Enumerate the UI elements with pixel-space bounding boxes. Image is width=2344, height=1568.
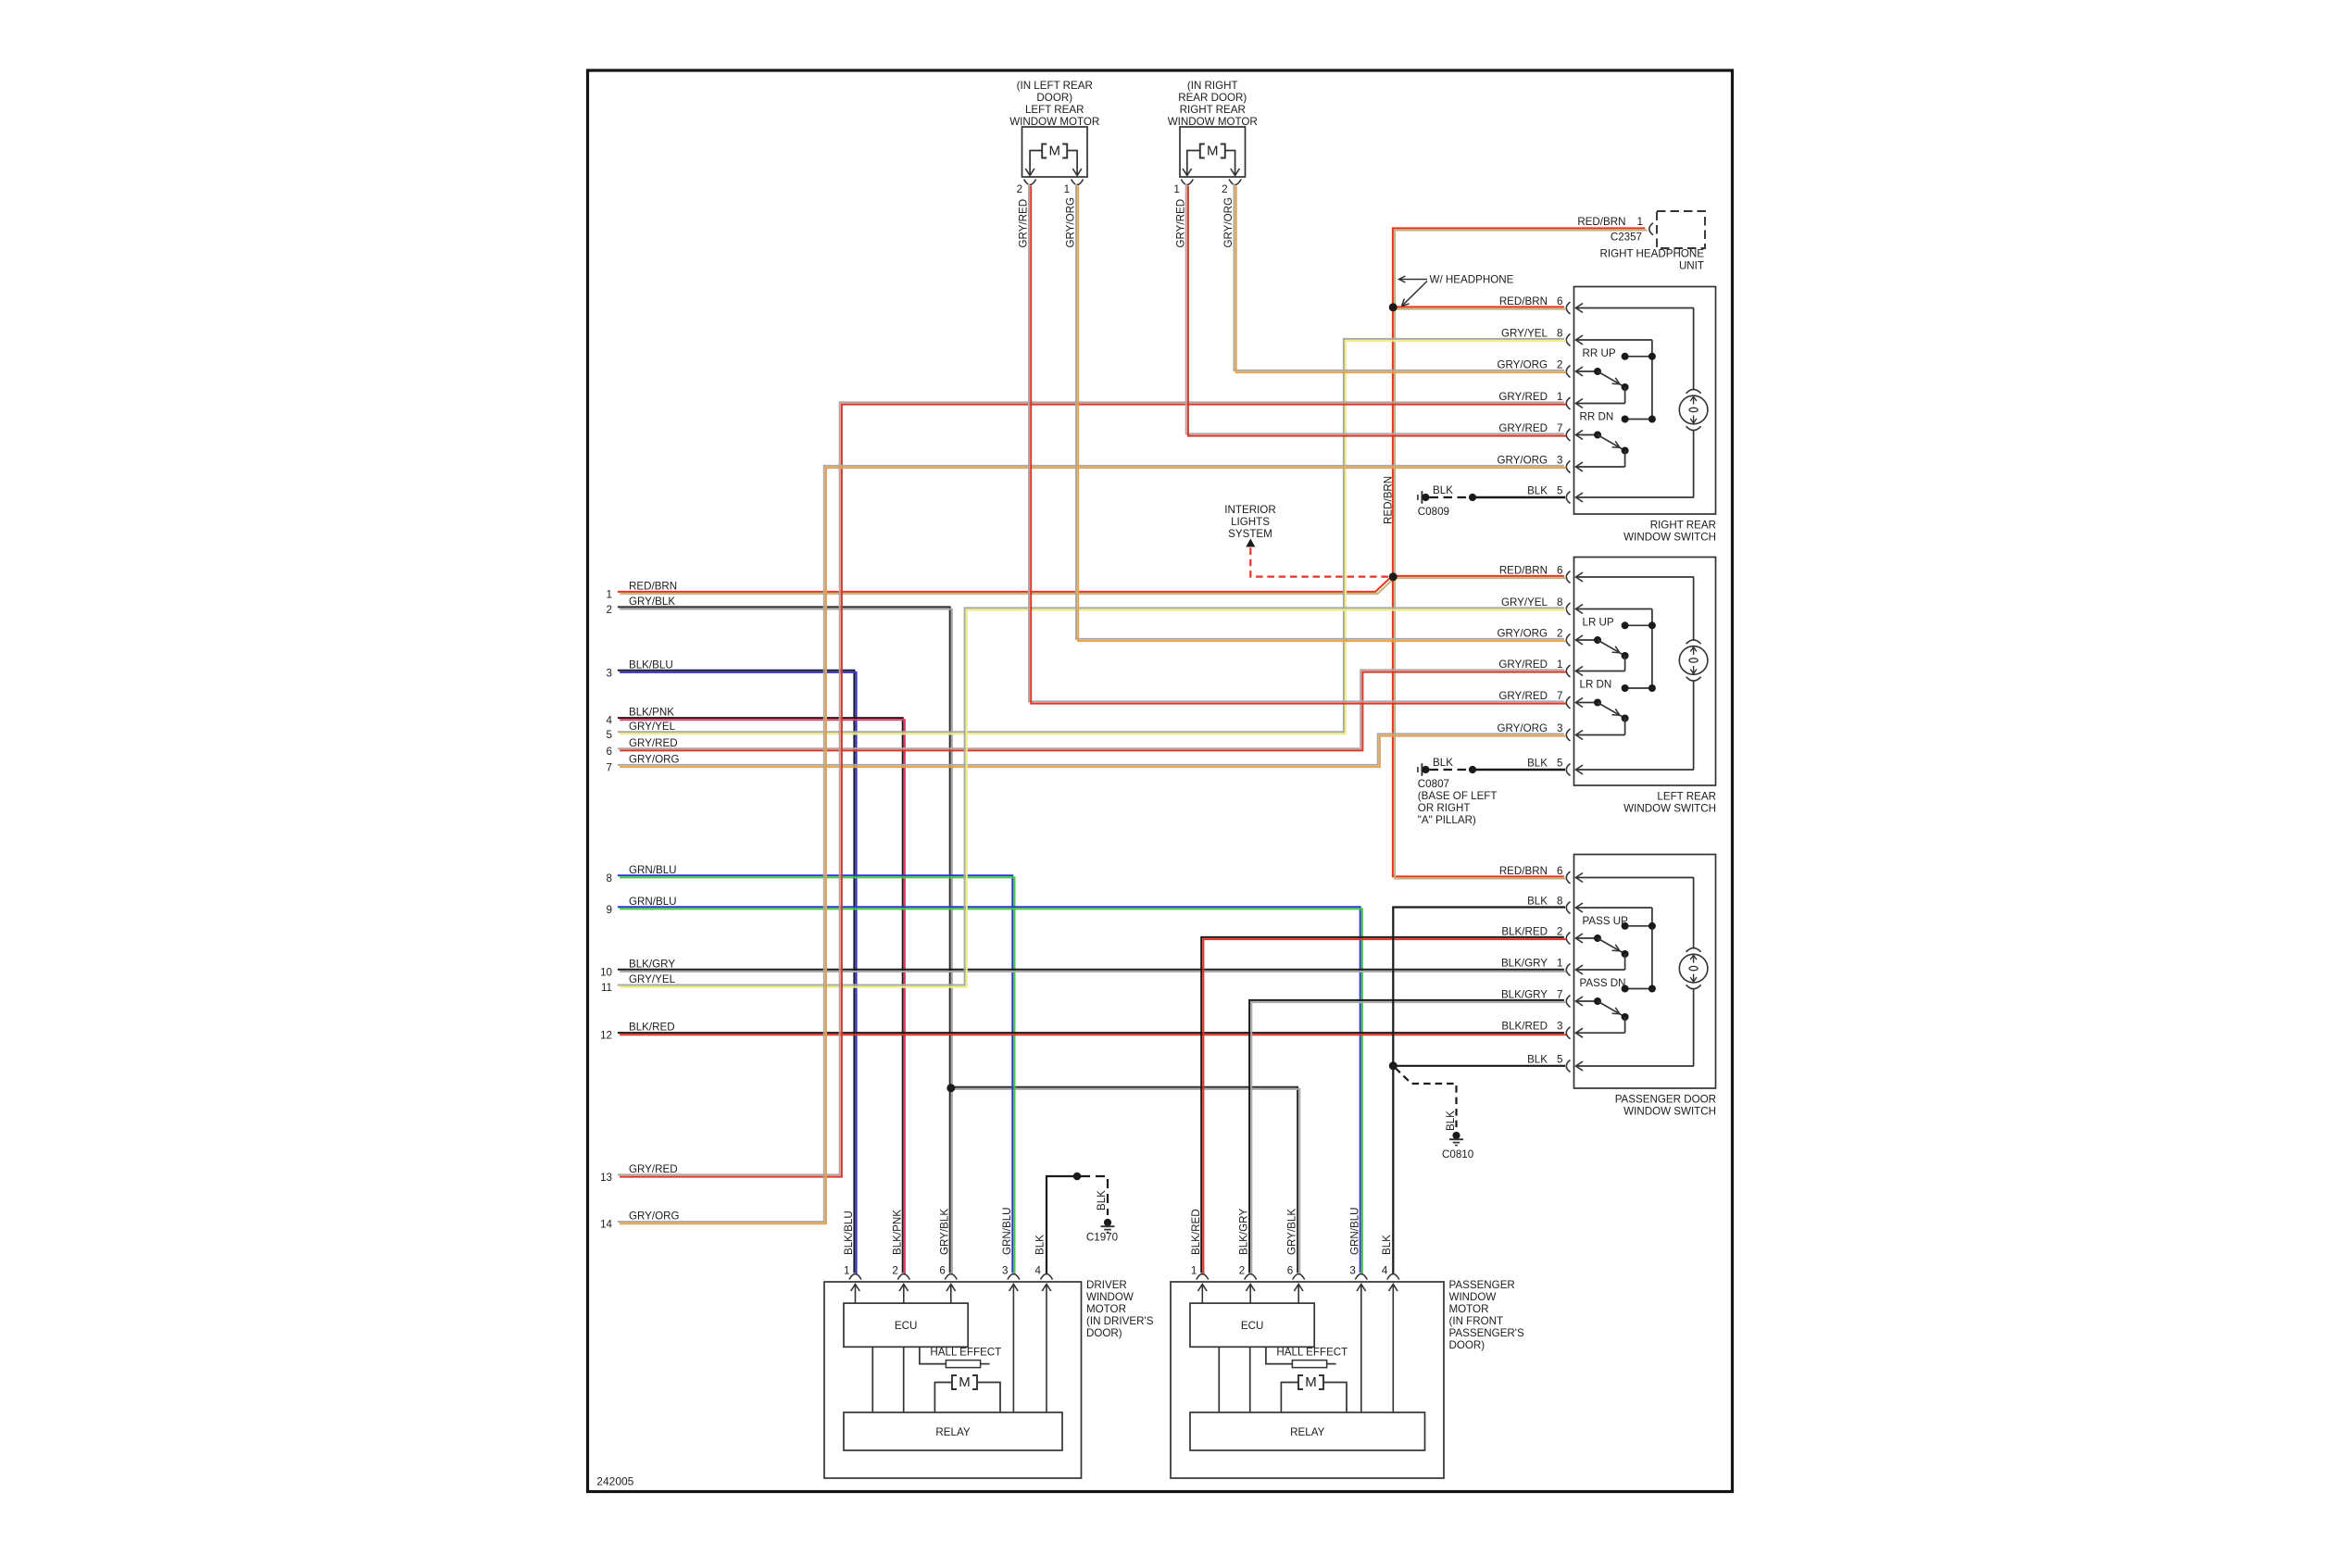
svg-text:C1970: C1970 [1086, 1232, 1118, 1244]
svg-text:ECU: ECU [895, 1320, 917, 1332]
svg-text:12: 12 [600, 1030, 612, 1042]
svg-text:W/ HEADPHONE: W/ HEADPHONE [1430, 274, 1514, 286]
svg-text:PASSENGER: PASSENGER [1449, 1279, 1515, 1291]
svg-text:DOOR): DOOR) [1036, 92, 1072, 104]
svg-text:GRN/BLU: GRN/BLU [629, 896, 677, 908]
svg-text:3: 3 [1349, 1265, 1355, 1277]
svg-text:2: 2 [607, 604, 612, 616]
svg-text:242005: 242005 [596, 1475, 633, 1488]
svg-text:8: 8 [1557, 596, 1562, 608]
svg-text:1: 1 [1191, 1265, 1197, 1277]
svg-text:DOOR): DOOR) [1086, 1327, 1122, 1339]
svg-text:6: 6 [1557, 295, 1562, 307]
svg-text:BLK/PNK: BLK/PNK [629, 707, 674, 719]
svg-text:HALL EFFECT: HALL EFFECT [930, 1347, 1001, 1359]
svg-text:GRY/YEL: GRY/YEL [1501, 596, 1548, 608]
svg-text:1: 1 [607, 589, 612, 601]
svg-text:1: 1 [1557, 958, 1562, 970]
svg-text:GRY/RED: GRY/RED [629, 737, 678, 749]
svg-text:3: 3 [1557, 1021, 1562, 1033]
svg-text:M: M [1049, 144, 1061, 159]
svg-text:REAR DOOR): REAR DOOR) [1178, 92, 1247, 104]
svg-text:5: 5 [1557, 1054, 1562, 1066]
svg-text:GRY/BLK: GRY/BLK [938, 1209, 950, 1255]
svg-text:4: 4 [1382, 1265, 1388, 1277]
svg-text:(IN DRIVER'S: (IN DRIVER'S [1086, 1315, 1154, 1327]
svg-text:BLK: BLK [1445, 1110, 1457, 1131]
svg-text:BLK/GRY: BLK/GRY [1501, 989, 1548, 1001]
svg-text:BLK/RED: BLK/RED [1501, 1021, 1548, 1033]
svg-text:11: 11 [601, 982, 612, 994]
svg-text:LEFT REAR: LEFT REAR [1025, 104, 1084, 116]
svg-text:INTERIOR: INTERIOR [1224, 504, 1275, 516]
svg-text:BLK: BLK [1527, 758, 1548, 770]
svg-text:GRY/ORG: GRY/ORG [1497, 628, 1548, 640]
svg-text:HALL EFFECT: HALL EFFECT [1276, 1347, 1347, 1359]
svg-text:10: 10 [600, 966, 612, 978]
svg-text:GRY/ORG: GRY/ORG [1497, 359, 1548, 371]
svg-text:RR UP: RR UP [1583, 347, 1616, 359]
svg-text:1: 1 [844, 1265, 849, 1277]
svg-text:RIGHT REAR: RIGHT REAR [1650, 520, 1716, 532]
svg-text:6: 6 [939, 1265, 945, 1277]
svg-text:BLK/BLU: BLK/BLU [629, 659, 673, 671]
svg-text:ECU: ECU [1241, 1320, 1263, 1332]
svg-text:C0807: C0807 [1418, 778, 1449, 790]
svg-text:3: 3 [1557, 722, 1562, 734]
svg-text:M: M [959, 1374, 971, 1390]
svg-text:PASSENGER'S: PASSENGER'S [1449, 1327, 1525, 1339]
svg-text:7: 7 [607, 762, 612, 774]
svg-text:UNIT: UNIT [1679, 260, 1704, 272]
svg-text:6: 6 [607, 746, 612, 758]
svg-text:WINDOW SWITCH: WINDOW SWITCH [1623, 803, 1716, 815]
svg-text:PASS UP: PASS UP [1583, 915, 1629, 927]
svg-text:RELAY: RELAY [935, 1426, 970, 1438]
svg-text:6: 6 [1287, 1265, 1293, 1277]
svg-text:6: 6 [1557, 865, 1562, 877]
svg-text:2: 2 [1557, 926, 1562, 938]
svg-text:BLK/RED: BLK/RED [1501, 926, 1548, 938]
svg-text:RIGHT REAR: RIGHT REAR [1180, 104, 1246, 116]
svg-text:LEFT REAR: LEFT REAR [1657, 791, 1716, 803]
svg-text:GRY/ORG: GRY/ORG [1065, 197, 1077, 248]
svg-text:2: 2 [892, 1265, 897, 1277]
svg-text:GRN/BLU: GRN/BLU [629, 864, 677, 876]
svg-text:2: 2 [1222, 183, 1227, 195]
svg-text:GRY/RED: GRY/RED [1018, 199, 1030, 248]
svg-text:13: 13 [600, 1172, 612, 1184]
svg-text:OR RIGHT: OR RIGHT [1418, 802, 1471, 814]
svg-text:GRY/YEL: GRY/YEL [629, 721, 676, 733]
svg-text:MOTOR: MOTOR [1086, 1303, 1126, 1315]
svg-text:BLK/GRY: BLK/GRY [629, 958, 675, 970]
svg-text:BLK: BLK [1034, 1235, 1047, 1255]
svg-text:8: 8 [1557, 896, 1562, 908]
svg-text:BLK/GRY: BLK/GRY [1238, 1209, 1250, 1255]
svg-text:1: 1 [1557, 659, 1562, 671]
svg-text:8: 8 [607, 872, 612, 884]
svg-text:GRY/ORG: GRY/ORG [1497, 455, 1548, 467]
svg-text:GRY/YEL: GRY/YEL [1501, 328, 1548, 340]
svg-text:BLK/RED: BLK/RED [1190, 1209, 1202, 1255]
svg-text:5: 5 [1557, 485, 1562, 497]
svg-text:5: 5 [607, 729, 612, 741]
svg-text:GRY/RED: GRY/RED [1174, 199, 1186, 248]
svg-text:DRIVER: DRIVER [1086, 1279, 1127, 1291]
svg-text:C0809: C0809 [1418, 506, 1449, 518]
svg-text:GRN/BLU: GRN/BLU [1001, 1207, 1013, 1255]
svg-text:WINDOW: WINDOW [1449, 1291, 1497, 1303]
svg-text:RED/BRN: RED/BRN [629, 581, 677, 593]
svg-text:RED/BRN: RED/BRN [1499, 865, 1548, 877]
svg-text:BLK/RED: BLK/RED [629, 1022, 675, 1034]
svg-text:RELAY: RELAY [1290, 1426, 1324, 1438]
svg-text:RED/BRN: RED/BRN [1499, 565, 1548, 577]
svg-text:BLK: BLK [1096, 1190, 1108, 1210]
svg-text:3: 3 [1002, 1265, 1008, 1277]
svg-text:BLK: BLK [1433, 484, 1453, 496]
svg-text:LR UP: LR UP [1583, 617, 1614, 629]
svg-text:BLK: BLK [1527, 1054, 1548, 1066]
svg-text:C0810: C0810 [1442, 1148, 1473, 1160]
svg-text:GRY/ORG: GRY/ORG [629, 1210, 680, 1223]
svg-text:GRY/RED: GRY/RED [1498, 422, 1548, 434]
svg-text:BLK/BLU: BLK/BLU [843, 1210, 855, 1255]
svg-text:DOOR): DOOR) [1449, 1339, 1485, 1351]
svg-text:GRY/YEL: GRY/YEL [629, 973, 676, 985]
svg-text:M: M [1207, 144, 1219, 159]
svg-text:"A" PILLAR): "A" PILLAR) [1418, 814, 1476, 826]
svg-text:(IN RIGHT: (IN RIGHT [1187, 80, 1238, 92]
svg-text:9: 9 [607, 904, 612, 916]
svg-text:1: 1 [1557, 391, 1562, 403]
svg-text:(IN LEFT REAR: (IN LEFT REAR [1017, 80, 1093, 92]
svg-text:GRY/RED: GRY/RED [1498, 690, 1548, 702]
svg-text:GRN/BLU: GRN/BLU [1348, 1207, 1360, 1255]
svg-text:MOTOR: MOTOR [1449, 1303, 1489, 1315]
svg-text:WINDOW MOTOR: WINDOW MOTOR [1009, 116, 1099, 128]
svg-text:1: 1 [1173, 183, 1179, 195]
svg-text:GRY/ORG: GRY/ORG [1222, 197, 1235, 248]
svg-text:GRY/BLK: GRY/BLK [629, 596, 675, 608]
svg-text:WINDOW: WINDOW [1086, 1291, 1134, 1303]
svg-text:BLK/PNK: BLK/PNK [891, 1210, 903, 1255]
svg-text:BLK: BLK [1381, 1235, 1393, 1255]
svg-text:GRY/BLK: GRY/BLK [1286, 1209, 1298, 1255]
svg-text:BLK: BLK [1527, 485, 1548, 497]
svg-text:M: M [1305, 1374, 1317, 1390]
svg-text:WINDOW SWITCH: WINDOW SWITCH [1623, 1106, 1716, 1118]
svg-text:3: 3 [607, 667, 612, 679]
svg-text:GRY/ORG: GRY/ORG [1497, 722, 1548, 734]
svg-text:RED/BRN: RED/BRN [1577, 216, 1625, 228]
svg-text:2: 2 [1239, 1265, 1245, 1277]
svg-text:7: 7 [1557, 989, 1562, 1001]
svg-text:SYSTEM: SYSTEM [1228, 528, 1272, 540]
svg-text:WINDOW MOTOR: WINDOW MOTOR [1168, 116, 1258, 128]
svg-text:4: 4 [1035, 1265, 1042, 1277]
svg-text:2: 2 [1557, 628, 1562, 640]
svg-text:PASS DN: PASS DN [1580, 977, 1626, 989]
svg-text:LIGHTS: LIGHTS [1231, 516, 1270, 528]
svg-text:C2357: C2357 [1611, 232, 1642, 244]
svg-text:(IN FRONT: (IN FRONT [1449, 1315, 1504, 1327]
svg-text:GRY/RED: GRY/RED [1498, 659, 1548, 671]
svg-text:2: 2 [1017, 183, 1022, 195]
svg-text:BLK/GRY: BLK/GRY [1501, 958, 1548, 970]
svg-text:LR DN: LR DN [1580, 679, 1612, 691]
svg-text:2: 2 [1557, 359, 1562, 371]
svg-text:6: 6 [1557, 565, 1562, 577]
svg-text:4: 4 [607, 715, 613, 727]
svg-text:GRY/RED: GRY/RED [1498, 391, 1548, 403]
svg-text:WINDOW SWITCH: WINDOW SWITCH [1623, 532, 1716, 544]
svg-text:RED/BRN: RED/BRN [1382, 476, 1394, 524]
svg-text:RED/BRN: RED/BRN [1499, 295, 1548, 307]
svg-text:RIGHT HEADPHONE: RIGHT HEADPHONE [1599, 248, 1704, 260]
svg-text:GRY/ORG: GRY/ORG [629, 754, 680, 766]
svg-text:BLK: BLK [1527, 896, 1548, 908]
svg-text:14: 14 [600, 1219, 612, 1231]
svg-text:RR DN: RR DN [1580, 411, 1614, 423]
svg-text:7: 7 [1557, 690, 1562, 702]
svg-text:1: 1 [1064, 183, 1070, 195]
svg-text:(BASE OF LEFT: (BASE OF LEFT [1418, 790, 1498, 802]
svg-text:7: 7 [1557, 422, 1562, 434]
svg-text:1: 1 [1637, 216, 1643, 228]
svg-text:PASSENGER DOOR: PASSENGER DOOR [1615, 1094, 1716, 1106]
svg-text:5: 5 [1557, 758, 1562, 770]
svg-text:8: 8 [1557, 328, 1562, 340]
svg-text:BLK: BLK [1433, 757, 1453, 769]
svg-text:GRY/RED: GRY/RED [629, 1163, 678, 1175]
svg-text:3: 3 [1557, 455, 1562, 467]
